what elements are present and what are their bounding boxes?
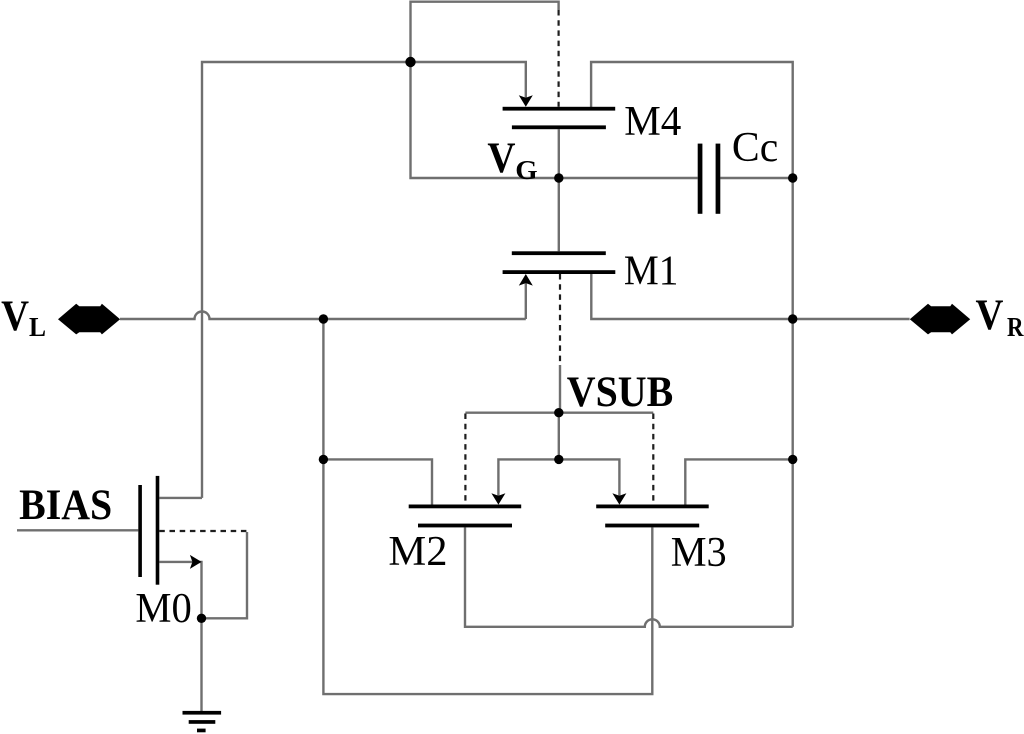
svg-text:BIAS: BIAS (19, 482, 112, 529)
svg-text:M1: M1 (624, 249, 679, 295)
svg-text:M2: M2 (388, 529, 447, 575)
svg-text:M3: M3 (671, 530, 727, 576)
svg-text:VSUB: VSUB (567, 369, 673, 416)
svg-text:R: R (1007, 312, 1024, 342)
svg-text:G: G (515, 155, 537, 185)
svg-text:Cc: Cc (732, 125, 778, 171)
svg-text:M4: M4 (624, 99, 681, 145)
svg-text:L: L (29, 312, 46, 342)
svg-text:V: V (1, 293, 29, 340)
svg-text:V: V (976, 292, 1004, 339)
svg-text:V: V (487, 135, 515, 182)
svg-text:M0: M0 (135, 586, 191, 632)
